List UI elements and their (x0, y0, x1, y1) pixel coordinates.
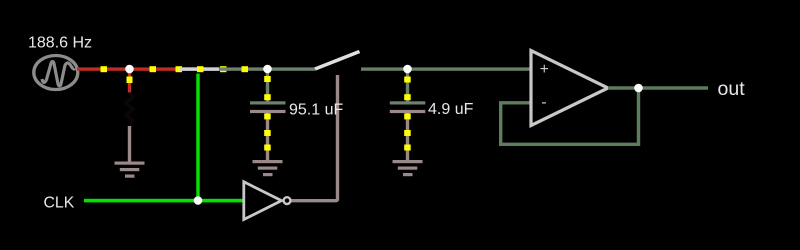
wire W1 red: source to node A (77, 66, 130, 72)
capacitor C2 plates (390, 101, 426, 113)
svg-text:188.6 Hz: 188.6 Hz (28, 35, 92, 52)
ground G1 (115, 126, 145, 178)
ground G3 (393, 160, 423, 176)
current dots on S1 (197, 66, 227, 72)
svg-text:-: - (541, 94, 546, 111)
svg-text:out: out (718, 78, 746, 100)
wire control S1 green (from CLK) (196, 74, 199, 202)
svg-text:+: + (540, 61, 549, 78)
analog switch S1 (closed) (180, 67, 220, 71)
svg-text:95.1 uF: 95.1 uF (289, 102, 343, 119)
node A junction (125, 65, 134, 74)
node B junction (263, 65, 272, 74)
AC sweep source V1 (34, 56, 78, 90)
svg-text:CLK: CLK (44, 195, 75, 212)
wire W5 sage: S2 to op-amp + input (361, 67, 531, 70)
ground G2 (253, 160, 283, 176)
wire W4 sage: node B to S2 (267, 67, 315, 70)
op-amp U1 (531, 51, 608, 126)
capacitor C2 lead lower + dots (404, 113, 411, 161)
node C junction (403, 65, 412, 74)
node D output junction (634, 84, 643, 93)
inverter U2 (244, 182, 291, 220)
wire W2 red: node A to switch S1 (129, 66, 182, 72)
wire control S2 from inverter output (291, 75, 338, 201)
analog switch S2 (open) lever (315, 52, 360, 70)
wire W3 sage: S1 to node B (219, 66, 269, 72)
wire feedback: op-amp minus loop (501, 88, 639, 144)
capacitor C1 plates (250, 101, 286, 113)
capacitor C1 lead upper + dots (264, 69, 271, 102)
capacitor C2 lead upper + dots (404, 69, 411, 102)
svg-text:4.9 uF: 4.9 uF (428, 101, 474, 118)
node E junction (CLK tap) (194, 196, 203, 205)
wire output: op-amp to out (608, 86, 708, 89)
wire red stub: node A down to resistor R1 (127, 69, 133, 93)
resistor R1 (zero power, near-black) (126, 93, 133, 125)
wire CLK green (84, 199, 244, 203)
capacitor C1 lead lower + dots (264, 113, 271, 161)
